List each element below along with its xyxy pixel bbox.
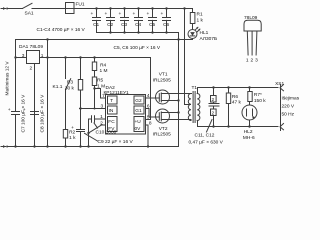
svg-text:XS1: XS1	[275, 81, 284, 87]
svg-text:R3: R3	[67, 80, 73, 86]
svg-text:2: 2	[30, 66, 33, 72]
svg-text:C9 22 µF × 16 V: C9 22 µF × 16 V	[98, 139, 134, 145]
svg-text:FC: FC	[108, 119, 115, 125]
capacitor C9	[71, 126, 84, 147]
svg-text:220 V: 220 V	[282, 104, 295, 110]
LED HL1	[188, 27, 217, 42]
wire output top rail	[198, 86, 279, 93]
svg-text:150 k: 150 k	[254, 98, 266, 104]
svg-text:КР1211ЕУ1: КР1211ЕУ1	[104, 90, 130, 96]
transistor VT2	[146, 109, 192, 138]
regulator DA1 78L09	[19, 44, 44, 72]
svg-text:VT1: VT1	[159, 72, 168, 78]
capacitor C3	[119, 9, 129, 33]
svg-text:МН-6: МН-6	[243, 135, 255, 141]
svg-text:+: +	[119, 12, 122, 17]
input terminal + (top-left)	[1, 7, 8, 10]
svg-text:Maitinimas 12 V: Maitinimas 12 V	[5, 61, 11, 96]
svg-text:DA1 78L09: DA1 78L09	[19, 44, 43, 50]
resistor R1	[190, 9, 203, 30]
svg-text:+: +	[91, 12, 94, 17]
svg-text:IN: IN	[109, 108, 114, 114]
wire to pin 7	[95, 89, 106, 99]
capacitor C4	[133, 9, 143, 33]
svg-text:C8 100 µF × 16 V: C8 100 µF × 16 V	[40, 94, 46, 133]
label C11 C12	[189, 120, 224, 146]
neon lamp HL2	[242, 102, 257, 141]
svg-text:50 Hz: 50 Hz	[282, 112, 295, 118]
svg-text:АЛ307Б: АЛ307Б	[200, 36, 218, 42]
wire 9V rail	[40, 57, 151, 59]
capacitor C2	[105, 9, 115, 33]
svg-text:FU1: FU1	[76, 1, 85, 7]
svg-text:IRL2505: IRL2505	[153, 132, 171, 138]
svg-text:30 k: 30 k	[65, 86, 75, 92]
svg-text:3: 3	[22, 53, 25, 59]
switch SA1	[23, 3, 34, 8]
node dots top rail	[95, 7, 185, 9]
svg-text:G2: G2	[135, 98, 142, 104]
svg-text:1 M: 1 M	[100, 68, 108, 74]
svg-text:VT2: VT2	[159, 126, 168, 132]
svg-text:+: +	[8, 108, 11, 113]
resistor R3	[65, 58, 83, 130]
svg-text:3: 3	[255, 57, 258, 63]
svg-text:DA2: DA2	[106, 85, 116, 91]
svg-text:Išėjimas: Išėjimas	[282, 96, 300, 102]
wire VA vertical	[177, 33, 179, 147]
svg-text:+U: +U	[135, 119, 142, 125]
svg-text:C2: C2	[107, 22, 113, 28]
wire top rail left	[7, 8, 22, 10]
svg-text:C1: C1	[93, 22, 99, 28]
svg-text:+: +	[147, 12, 150, 17]
relay contact K1.1	[53, 58, 71, 130]
svg-text:C11, C12: C11, C12	[195, 133, 215, 139]
svg-text:C6: C6	[163, 22, 169, 28]
svg-text:47 k: 47 k	[232, 100, 242, 106]
svg-text:0V: 0V	[135, 126, 142, 132]
resistor R4	[92, 58, 107, 75]
connector XS1	[275, 81, 300, 130]
svg-text:+: +	[161, 12, 164, 17]
wire 9V riser to +U	[146, 58, 151, 120]
capacitor C8	[23, 94, 46, 133]
svg-text:C5: C5	[149, 22, 155, 28]
svg-text:C1-C4 4700 µF × 16 V: C1-C4 4700 µF × 16 V	[37, 27, 86, 33]
svg-text:+: +	[71, 126, 74, 131]
transformer T1	[188, 85, 200, 122]
wire 0V to ground	[146, 125, 150, 148]
capacitor C5	[147, 9, 157, 33]
svg-text:R7*: R7*	[254, 92, 262, 98]
svg-text:C5, C6 100 µF × 16 V: C5, C6 100 µF × 16 V	[114, 45, 161, 51]
svg-text:3: 3	[101, 104, 104, 110]
svg-text:1: 1	[246, 57, 249, 63]
capacitor C11	[209, 102, 219, 109]
capacitor C6	[161, 9, 171, 33]
svg-text:G1: G1	[135, 108, 142, 114]
wire	[34, 8, 66, 10]
capacitor C10	[89, 116, 106, 147]
wire pin 2 FV diagonal	[87, 125, 105, 134]
wire DA1 ground pin 2	[34, 64, 36, 147]
svg-text:8: 8	[149, 121, 152, 127]
wire cap ground rail	[97, 32, 179, 34]
wire LED to return rail	[192, 39, 194, 40]
wire VB 12V feed	[185, 9, 191, 105]
svg-text:C7 100 µF × 16 V: C7 100 µF × 16 V	[21, 94, 27, 133]
svg-text:HL1: HL1	[200, 30, 209, 36]
svg-text:2: 2	[251, 57, 254, 63]
svg-text:C3: C3	[121, 22, 127, 28]
svg-text:R1: R1	[197, 12, 203, 18]
label C9	[85, 133, 134, 145]
svg-text:R6: R6	[232, 94, 238, 100]
transistor VT1	[146, 72, 192, 104]
svg-text:1 k: 1 k	[69, 135, 76, 141]
wire return rail	[16, 39, 193, 41]
wire DA1 input	[16, 57, 27, 59]
fuse FU1	[66, 3, 75, 14]
secondary winding 2 (upper)	[211, 88, 217, 104]
svg-text:+: +	[133, 12, 136, 17]
svg-text:IRL2505: IRL2505	[153, 78, 171, 84]
secondary winding 2 (lower)	[211, 109, 217, 127]
label C10	[94, 123, 117, 135]
wire output bottom rail	[198, 121, 279, 128]
svg-text:T: T	[110, 98, 113, 104]
wire branch x47.5	[47, 40, 49, 147]
svg-text:0,47 µF × 630 V: 0,47 µF × 630 V	[189, 140, 224, 146]
resistor R7*	[248, 88, 266, 104]
svg-text:SA1: SA1	[25, 11, 34, 17]
resistor R2	[63, 130, 76, 147]
wire top rail	[74, 8, 193, 10]
svg-text:C10 1000: C10 1000	[96, 129, 117, 135]
svg-text:T1: T1	[192, 85, 198, 91]
capacitor C1	[91, 9, 101, 33]
svg-text:+: +	[105, 12, 108, 17]
capacitor C7	[8, 40, 27, 147]
svg-text:HL2: HL2	[244, 129, 253, 135]
svg-text:1 k: 1 k	[197, 17, 204, 23]
svg-text:C4: C4	[135, 22, 141, 28]
svg-text:1: 1	[41, 53, 44, 59]
bottom ground rail	[1, 145, 179, 148]
wire to pin 3	[79, 107, 105, 109]
IC DA2 KR1211EU1	[100, 85, 152, 134]
svg-text:7: 7	[102, 93, 105, 99]
svg-text:R4: R4	[100, 63, 106, 69]
svg-text:R5: R5	[97, 78, 103, 84]
svg-text:+: +	[23, 108, 26, 113]
TO-92 package 78L09	[244, 15, 261, 63]
svg-text:K1.1: K1.1	[53, 84, 63, 90]
resistor R5	[92, 71, 105, 109]
node R5 bottom	[93, 87, 95, 89]
resistor R6	[226, 88, 241, 127]
